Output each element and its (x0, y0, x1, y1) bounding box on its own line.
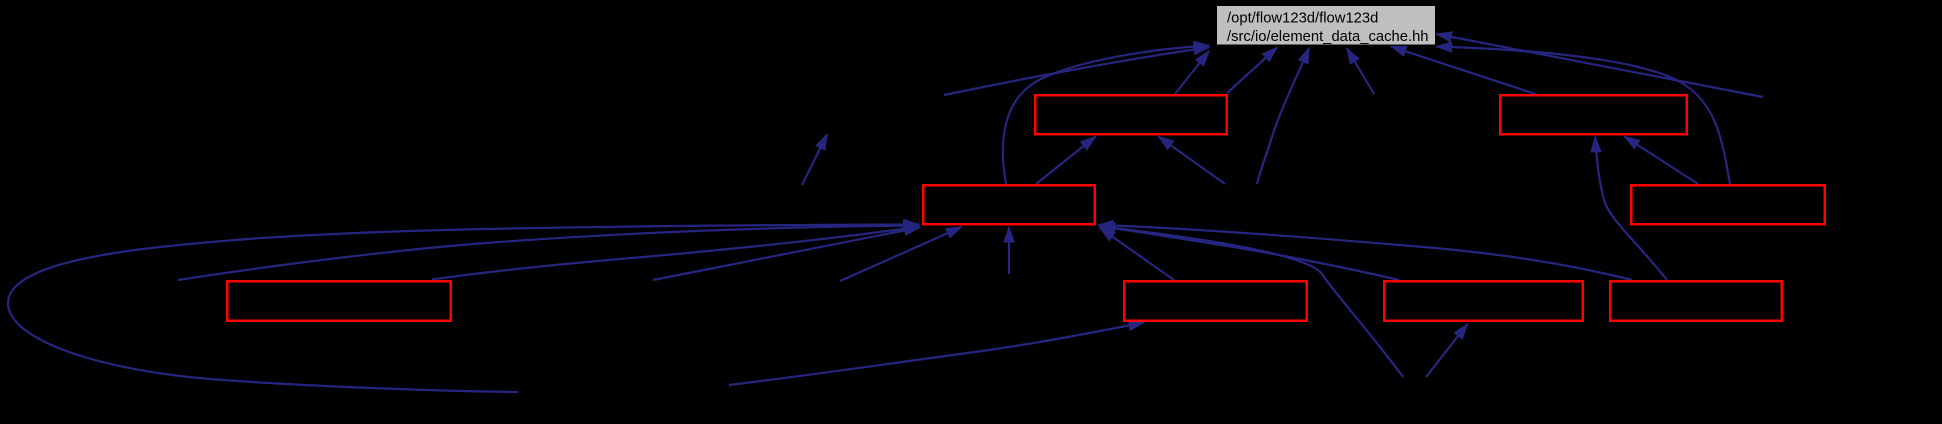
wire edge from box4 top to box2 bottom (1036, 137, 1096, 185)
wire edge from invisible node at 653 to hub box corner (653, 228, 920, 281)
node box7 (1124, 281, 1307, 321)
wire edge from invisible node at 1374 to main node bottom (1347, 49, 1374, 95)
wire edge from box9 top to box3 bottom (1595, 137, 1667, 280)
node box4 hub (923, 185, 1095, 224)
wire edge from invisible node at 944 to main node corner (944, 48, 1209, 96)
wire edge from box9 top-left to hub box bottom-right corner (1099, 225, 1633, 280)
wire edge V-right into box8 bottom edge (1426, 324, 1468, 377)
wire edge from invisible node at 841 to hub box bottom edge (840, 227, 962, 281)
node box6 (227, 281, 451, 321)
wire edge from box2 top to main node corner (1175, 51, 1209, 94)
svg-text:/src/io/element_data_cache.hh: /src/io/element_data_cache.hh (1227, 29, 1429, 45)
node box5 (1631, 185, 1825, 224)
wire edge from lower invisible node to box7 bottom-left corner (729, 323, 1144, 386)
wire edge from invisible mid node to box2 bottom (1159, 137, 1226, 185)
node main grey box (1217, 6, 1435, 45)
wire edge from lower invisible node V-left to hub box bottom-right corner (1100, 227, 1403, 378)
wire edge from invisible mid node to main node bottom (1257, 48, 1309, 184)
node box3 (1500, 95, 1687, 134)
wire dangling edge to invisible node (802, 135, 827, 186)
svg-text:/opt/flow123d/flow123d: /opt/flow123d/flow123d (1227, 11, 1378, 27)
wire edge from box5 top curving to main node right edge (1437, 47, 1731, 185)
wire edge from box6 top to hub box corner (432, 227, 920, 280)
wire edge from box5 top to box3 bottom (1625, 137, 1699, 185)
wire edge from box3 top to main node bottom (1391, 47, 1537, 95)
node box8 (1384, 281, 1583, 321)
wire edge from hub box top curving over box2 to main node corner (1003, 46, 1209, 185)
wire edge from box2 top-right to main node bottom (1227, 48, 1277, 94)
node box2 (1035, 95, 1227, 134)
wire edge from far-left invisible node to hub box corner (178, 226, 919, 281)
node box9 (1610, 281, 1782, 321)
wire edge from box7 top to hub box bottom-right corner (1100, 228, 1174, 280)
wire edge from invisible node at 1763 to main node right edge (1437, 34, 1764, 97)
wire edge from box8 top to hub box bottom-right corner (1100, 227, 1400, 281)
wire edge loop from lower-left invisible node to hub box bottom-left corner (8, 225, 919, 393)
wire vertical edge into hub box bottom edge (1008, 227, 1010, 274)
